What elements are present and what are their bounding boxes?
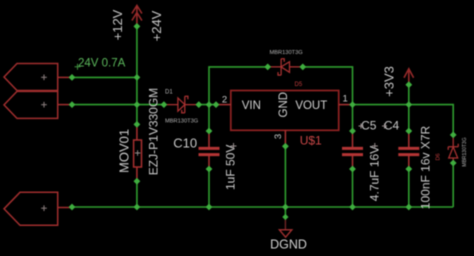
C5 polarity plus xyxy=(372,143,378,149)
varistor MOV01 pins xyxy=(136,124,138,181)
svg-text:1: 1 xyxy=(343,94,348,105)
svg-text:EZJ-P1V330GM: EZJ-P1V330GM xyxy=(147,88,161,175)
svg-text:3: 3 xyxy=(273,134,284,139)
svg-text:1uF 50V: 1uF 50V xyxy=(224,145,238,190)
svg-text:VOUT: VOUT xyxy=(295,100,327,112)
connector X1 pad2 pin xyxy=(58,104,72,106)
svg-text:4.7uF 16V: 4.7uF 16V xyxy=(368,146,382,201)
wire main input net xyxy=(72,104,164,106)
svg-text:+12V: +12V xyxy=(110,9,125,40)
connector X1 pad 2 xyxy=(4,91,58,118)
svg-text:VIN: VIN xyxy=(242,100,261,112)
svg-text:2: 2 xyxy=(222,94,227,105)
wire ground rail xyxy=(72,206,453,208)
svg-text:MBR130T3G: MBR130T3G xyxy=(462,137,468,166)
regulator VIN pin xyxy=(216,104,231,106)
capacitor C5 plates xyxy=(342,148,363,154)
wire D1 to VIN xyxy=(199,104,216,106)
svg-text:100nF 16v X7R: 100nF 16v X7R xyxy=(419,125,433,209)
connector X1 pad2 plus mark xyxy=(41,102,47,108)
varistor plus mark xyxy=(135,150,140,155)
wire C4 column xyxy=(408,105,410,207)
wire C5 column xyxy=(352,105,354,207)
svg-text:C5: C5 xyxy=(361,118,377,132)
regulator VOUT pin xyxy=(339,104,353,106)
wire GND column xyxy=(284,146,286,217)
C5 origin cross xyxy=(359,124,364,129)
ground symbol DGND xyxy=(279,218,291,238)
connector X1 pad1 plus mark xyxy=(41,75,47,81)
regulator GND pin xyxy=(284,130,286,146)
wire 3V3 stub xyxy=(408,85,410,105)
svg-text:C10: C10 xyxy=(173,136,197,151)
wire supply rail vertical xyxy=(136,26,138,207)
svg-text:DGND: DGND xyxy=(270,238,307,252)
wire C10 column xyxy=(208,105,210,207)
wire D5 right branch xyxy=(303,67,353,105)
svg-text:D1: D1 xyxy=(165,90,173,96)
svg-text:MBR130T3G: MBR130T3G xyxy=(165,119,198,125)
svg-text:MBR130T3G: MBR130T3G xyxy=(270,50,303,56)
svg-text:C4: C4 xyxy=(384,118,400,132)
svg-text:24V 0.7A: 24V 0.7A xyxy=(78,58,126,70)
wire VOUT rail xyxy=(353,105,454,135)
svg-text:MOV01: MOV01 xyxy=(117,129,132,173)
capacitor C4 plates xyxy=(398,148,419,154)
origin cross 24V label xyxy=(75,64,81,70)
connector X1 pad1 pin xyxy=(58,76,72,78)
wire D6 column bottom xyxy=(452,163,454,207)
capacitor C10 pins xyxy=(208,131,210,169)
svg-text:D5: D5 xyxy=(295,82,303,88)
C4 origin cross xyxy=(382,124,387,129)
connector X2 pad 3 xyxy=(4,192,58,225)
diode D6 xyxy=(448,135,458,163)
svg-text:+3V3: +3V3 xyxy=(382,66,397,97)
connector X1 pad 1 xyxy=(4,64,58,91)
varistor MOV01 body xyxy=(134,140,142,167)
supply arrow +3V3 xyxy=(404,69,414,85)
svg-text:D6: D6 xyxy=(436,153,442,160)
capacitor C10 plates xyxy=(199,148,220,154)
capacitor C5 pins xyxy=(352,131,354,169)
C10 polarity plus xyxy=(231,143,237,149)
connector X2 pin xyxy=(58,207,72,209)
connector X2 plus mark xyxy=(41,205,47,211)
regulator U$1 body xyxy=(231,91,339,131)
capacitor C4 pins xyxy=(408,131,410,169)
svg-text:GND: GND xyxy=(278,92,290,118)
svg-text:+24V: +24V xyxy=(149,10,164,41)
diode D5 bypass xyxy=(268,59,303,75)
wire top connector to rail xyxy=(72,76,137,78)
diode D1 xyxy=(164,96,199,113)
svg-text:U$1: U$1 xyxy=(300,134,322,148)
wire D5 left branch xyxy=(209,67,268,105)
supply arrow +12V/+24V xyxy=(132,6,142,27)
